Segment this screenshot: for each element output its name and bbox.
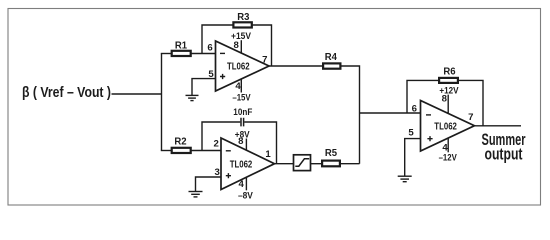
ground (U2 pin 3) bbox=[189, 192, 203, 197]
resistor R5 bbox=[322, 148, 340, 166]
wire: U1 feedback from pin6 node up to R3 bbox=[202, 25, 233, 54]
wire: U2 feedback from pin2 node up to capacitor bbox=[202, 122, 240, 151]
svg-text:TL062: TL062 bbox=[227, 62, 250, 73]
wire: R1 to U1 pin 6 bbox=[192, 53, 216, 55]
power -12V wire (U3 pin 4) bbox=[439, 138, 457, 163]
wire: R4 to summing node vertical bbox=[340, 66, 359, 164]
wire: junction to R1 bbox=[161, 53, 172, 55]
svg-text:R4: R4 bbox=[325, 52, 337, 63]
wire: U3 feedback from pin6 node up to R6 bbox=[407, 80, 439, 113]
svg-text:output: output bbox=[485, 146, 523, 164]
svg-text:8: 8 bbox=[234, 40, 240, 51]
wire: junction vertical between R1 and R2 branches bbox=[161, 54, 163, 151]
svg-text:TL062: TL062 bbox=[230, 160, 253, 171]
svg-text:–12V: –12V bbox=[439, 153, 457, 163]
svg-text:6: 6 bbox=[412, 103, 417, 114]
capacitor C1 10nF bbox=[233, 107, 252, 127]
svg-text:4: 4 bbox=[239, 179, 245, 190]
ground (U3 pin 5) bbox=[398, 176, 412, 182]
svg-text:R6: R6 bbox=[443, 67, 455, 78]
wire: R3 to U1 output bbox=[253, 25, 272, 66]
resistor R3 bbox=[233, 12, 251, 27]
svg-text:7: 7 bbox=[262, 55, 267, 66]
svg-text:R5: R5 bbox=[325, 148, 337, 159]
wire: R6 to U3 output bbox=[459, 80, 483, 126]
resistor R2 bbox=[172, 137, 191, 153]
wire: limiter to R5 bbox=[311, 163, 322, 165]
wire: U2 pin 3 to ground drop bbox=[196, 176, 222, 191]
wire: input to splitter junction bbox=[112, 93, 162, 95]
svg-text:TL062: TL062 bbox=[434, 122, 457, 133]
svg-text:8: 8 bbox=[238, 136, 244, 147]
resistor R4 bbox=[323, 52, 340, 69]
svg-text:4: 4 bbox=[442, 142, 448, 153]
power +8V wire (U2 pin 8) bbox=[235, 130, 250, 151]
svg-text:1: 1 bbox=[265, 149, 271, 160]
svg-text:2: 2 bbox=[214, 139, 219, 150]
ground (U1 pin 5) bbox=[186, 95, 199, 100]
wire: summing node to U3 pin 6 bbox=[360, 112, 421, 114]
wire: R2 to U2 pin 2 bbox=[192, 150, 222, 152]
resistor R1 bbox=[172, 41, 191, 56]
limiter (saturation block) bbox=[294, 155, 311, 171]
svg-text:R1: R1 bbox=[175, 41, 187, 52]
wire: U1 pin 5 to ground drop bbox=[192, 78, 216, 95]
wire: capacitor to U2 output bbox=[244, 122, 276, 164]
node: Summer output label bbox=[482, 131, 526, 164]
wire: U1 output to R4 bbox=[269, 65, 324, 67]
wire: U3 output to Summer output bbox=[474, 125, 521, 127]
svg-text:8: 8 bbox=[442, 94, 448, 105]
op-amp U2 TL062 (bottom) bbox=[221, 138, 275, 190]
svg-text:7: 7 bbox=[468, 112, 473, 123]
resistor R6 bbox=[439, 67, 458, 83]
wire: U3 pin 5 to ground drop bbox=[405, 138, 421, 176]
power +15V wire (U1 pin 8) bbox=[231, 31, 251, 53]
power -15V wire (U1 pin 4) bbox=[232, 79, 250, 103]
svg-text:6: 6 bbox=[207, 42, 212, 53]
svg-text:R3: R3 bbox=[237, 12, 249, 23]
op-amp U3 TL062 (right) bbox=[421, 101, 475, 152]
svg-text:R2: R2 bbox=[174, 137, 186, 148]
wire: junction to R2 bbox=[161, 150, 172, 152]
svg-text:β ( Vref – Vout ): β ( Vref – Vout ) bbox=[22, 84, 111, 101]
power +12V wire (U3 pin 8) bbox=[439, 86, 458, 114]
svg-text:5: 5 bbox=[408, 128, 414, 139]
wire: R5 to summing node bbox=[340, 163, 360, 165]
svg-text:10nF: 10nF bbox=[233, 107, 252, 117]
wire: U2 output to limiter bbox=[274, 163, 293, 165]
power -8V wire (U2 pin 4) bbox=[238, 177, 253, 200]
svg-text:–8V: –8V bbox=[238, 190, 253, 200]
svg-text:–15V: –15V bbox=[232, 93, 250, 103]
op-amp U1 TL062 (top) bbox=[216, 41, 270, 91]
svg-text:4: 4 bbox=[235, 81, 241, 92]
